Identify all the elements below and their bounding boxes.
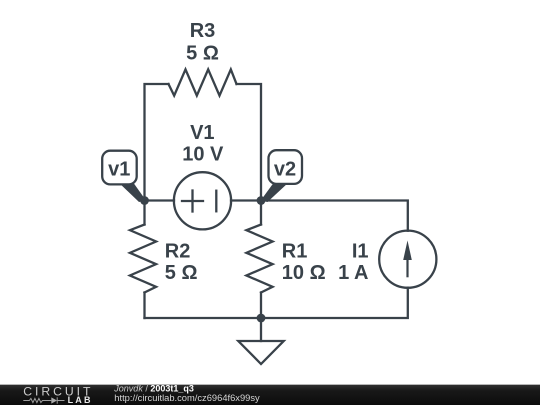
node v1 callout pointer [120, 184, 146, 202]
svg-text:R3: R3 [190, 20, 216, 42]
voltage source V1 body [174, 172, 231, 229]
V1 plus sign [182, 191, 203, 212]
svg-text:5 Ω: 5 Ω [186, 43, 219, 65]
wire from node v1 down to R2 [143, 201, 145, 225]
svg-text:10 V: 10 V [182, 144, 224, 166]
node v2 callout pointer [261, 184, 288, 202]
current source I1 body [379, 231, 436, 288]
svg-text:10 Ω: 10 Ω [282, 262, 326, 284]
wire from node v2 down to R1 [260, 201, 262, 225]
wire from V1 right terminal to node v2 [231, 199, 261, 201]
wire from I1 bottom to bottom-right corner [261, 288, 408, 318]
footer logo diode triangle [51, 397, 57, 403]
svg-text:R2: R2 [165, 240, 191, 262]
wire from R1 to bottom junction [260, 293, 262, 319]
wire bottom rail left [145, 317, 262, 319]
V1 minus sign (rotated) [215, 191, 217, 212]
svg-text:5 Ω: 5 Ω [165, 262, 198, 284]
bottom junction dot [257, 314, 266, 323]
wire from bottom junction to ground [260, 318, 262, 341]
node v1 junction dot [140, 196, 149, 205]
wire from R3 right lead down to node v2 [237, 84, 262, 201]
I1 arrow [403, 241, 412, 278]
resistor R2 [130, 225, 156, 293]
svg-text:http://circuitlab.com/cz6964f6: http://circuitlab.com/cz6964f6x99sy [114, 393, 260, 403]
svg-text:v1: v1 [108, 159, 130, 181]
node v2 callout box [269, 150, 303, 184]
svg-text:I1: I1 [352, 240, 369, 262]
resistor R1 [246, 225, 272, 293]
svg-text:V1: V1 [190, 122, 214, 144]
resistor R3 [169, 69, 237, 95]
wire from node v1 to V1 left terminal [145, 199, 175, 201]
node v1 callout box [102, 151, 137, 185]
node v2 junction dot [257, 196, 266, 205]
svg-text:R1: R1 [282, 240, 308, 262]
svg-text:1 A: 1 A [338, 262, 368, 284]
wire from node v1 up to R3 left lead [145, 84, 169, 201]
svg-text:LAB: LAB [68, 395, 93, 405]
wire from R2 to bottom rail [143, 293, 145, 319]
footer logo resistor-diode squiggle [23, 397, 64, 403]
svg-text:v2: v2 [274, 159, 296, 181]
footer bar [0, 385, 540, 405]
wire from node v2 to I1 top [261, 201, 408, 231]
ground [238, 341, 283, 364]
